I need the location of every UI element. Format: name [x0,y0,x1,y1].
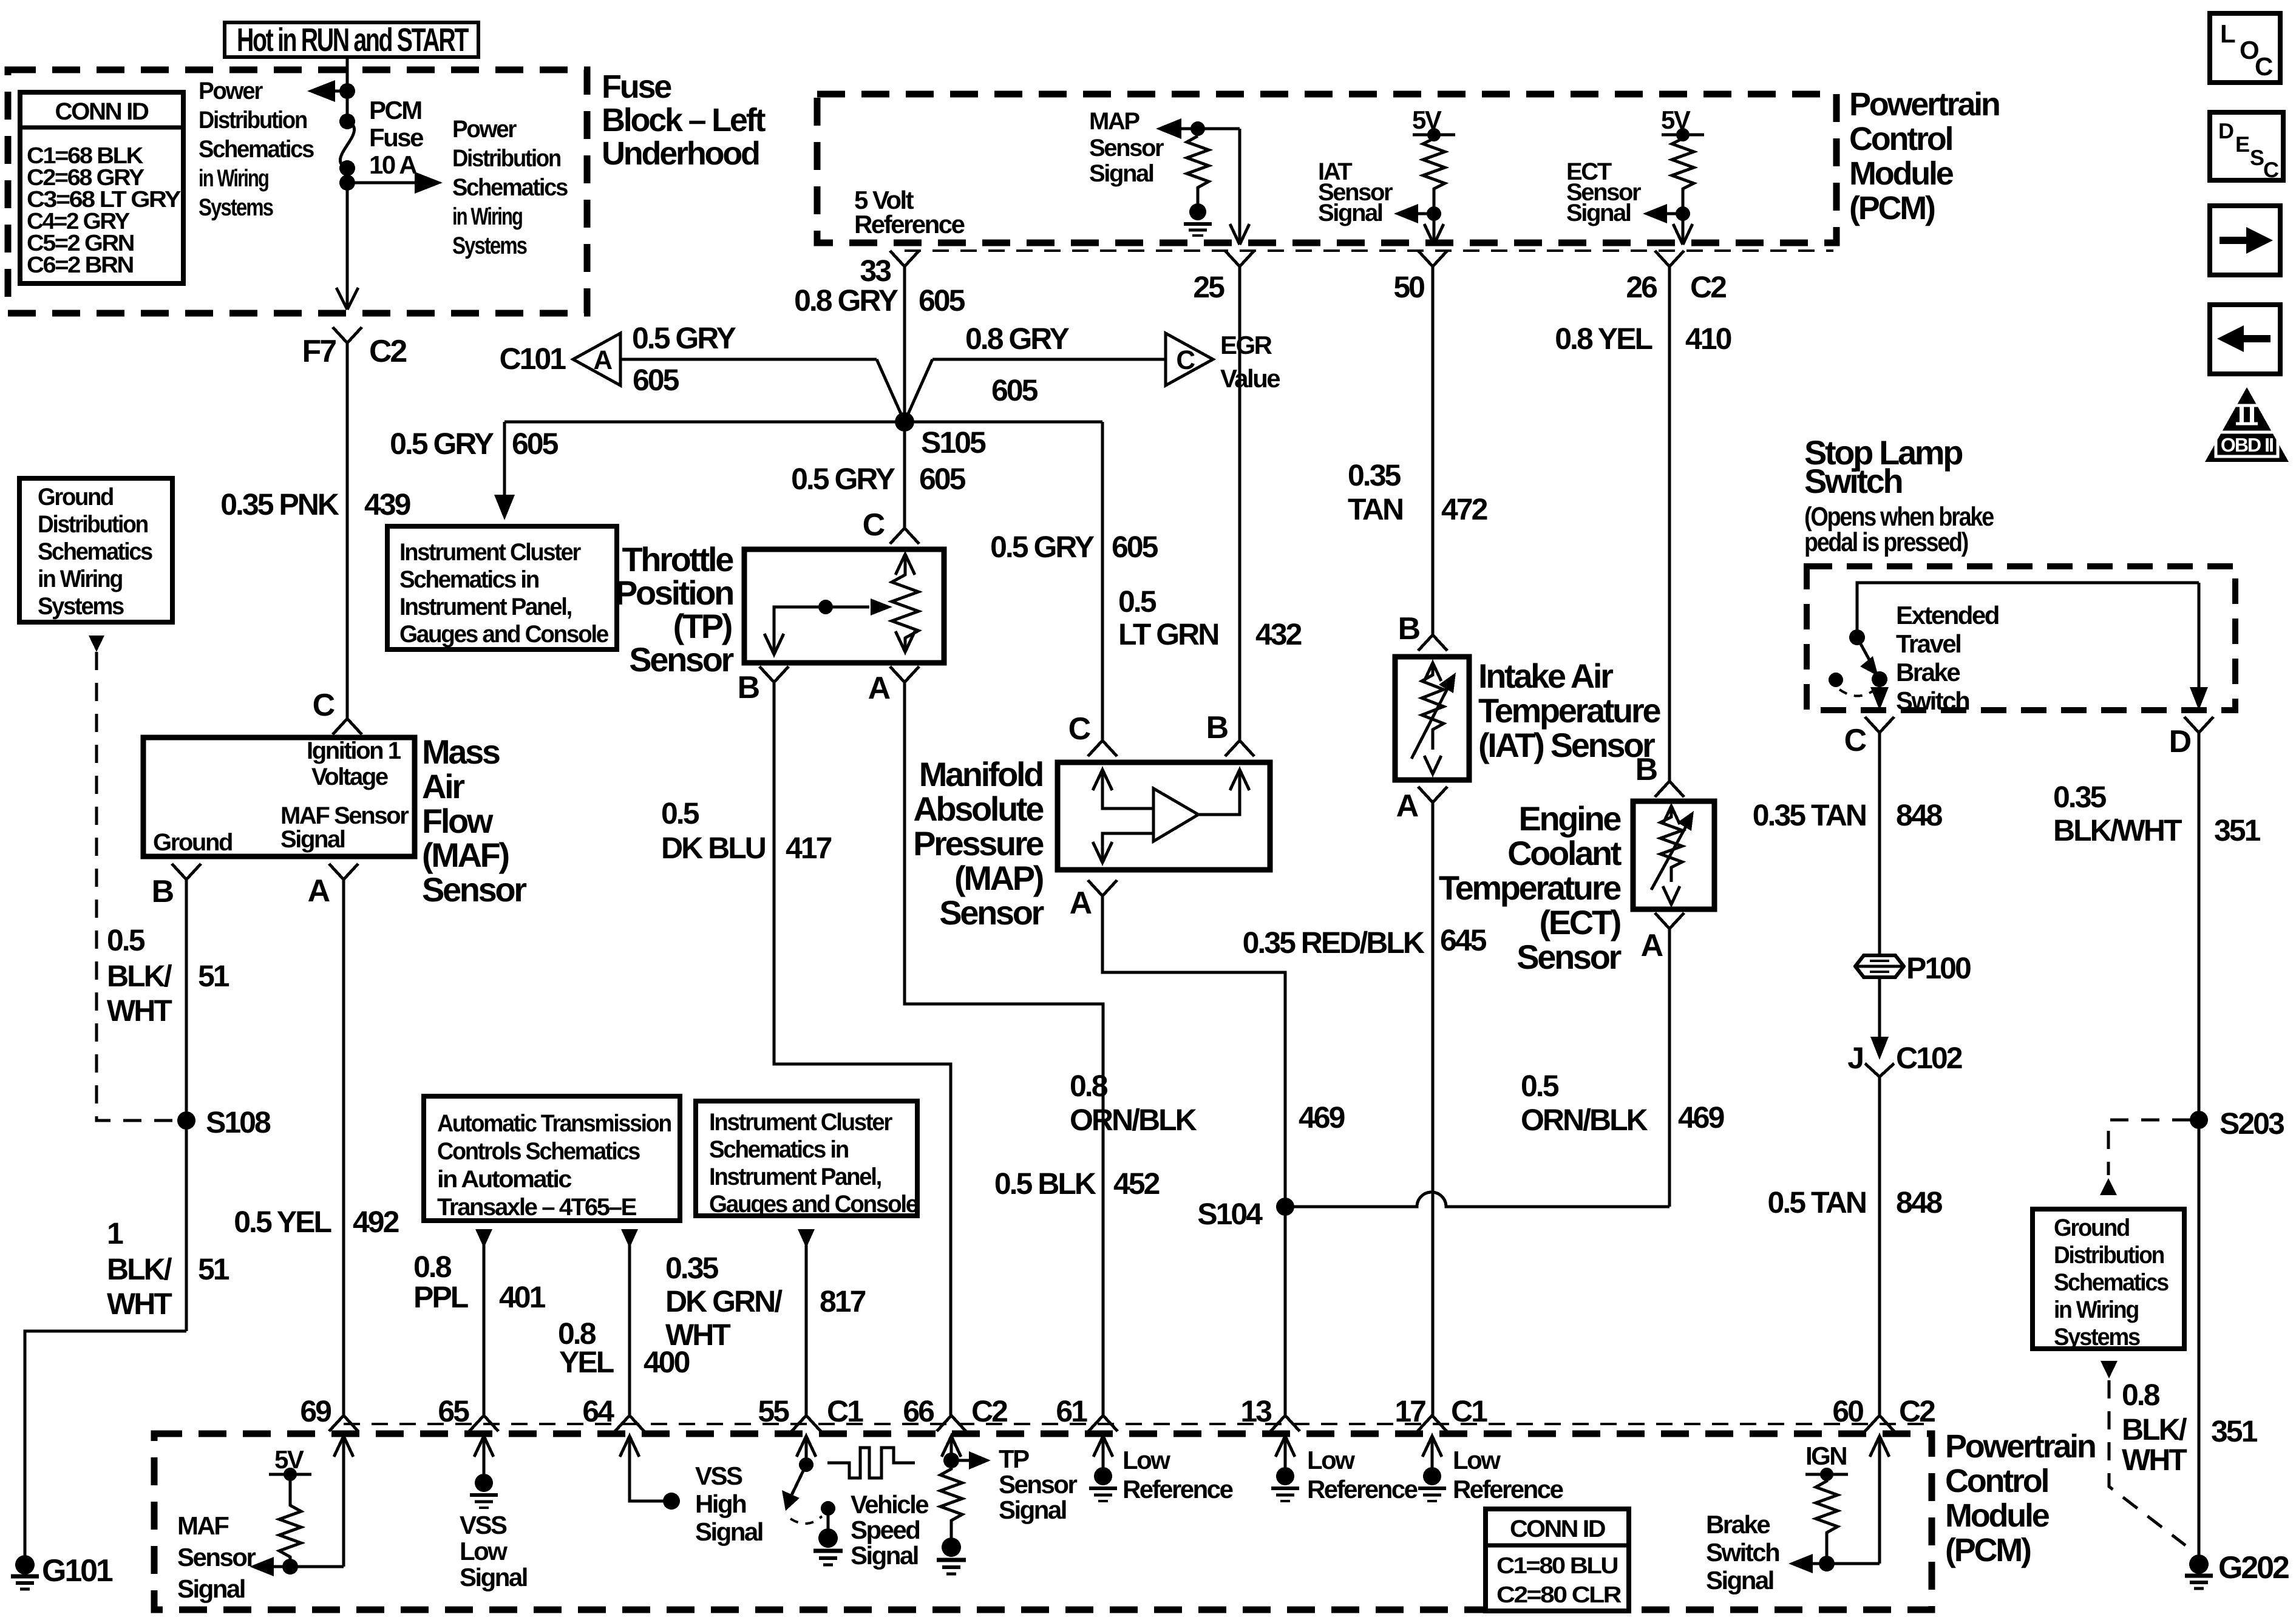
PCM title (bottom right) [1945,1428,2095,1568]
PCM pin 50 connector [1393,251,1447,304]
svg-text:51: 51 [198,959,229,993]
svg-text:Value: Value [1220,364,1280,393]
svg-text:(MAF): (MAF) [422,836,509,874]
svg-text:Control: Control [1849,121,1952,157]
MAF pin C connector [313,688,362,734]
MAP pin B connector [1206,710,1254,756]
svg-text:C1=80 BLU: C1=80 BLU [1496,1553,1618,1579]
svg-text:OBD II: OBD II [2221,434,2273,456]
PCM dashed box (bottom) [154,1434,1932,1610]
EGR Value C triangle connector [1166,331,1280,393]
square wave symbol [827,1448,915,1478]
wire 0.8 YEL 400 to pin 64 [558,1244,690,1415]
horizontal 5V reference bus [504,421,1102,424]
wire pin 26 to ECT pin B 0.8 YEL 410 [1555,266,1731,781]
ECT sensor name label [1439,799,1622,976]
svg-text:33: 33 [860,254,891,288]
svg-text:B: B [1206,710,1228,745]
MAF sensor name label [422,733,526,909]
svg-text:WHT: WHT [107,994,172,1028]
svg-text:5V: 5V [274,1445,304,1474]
reference arrow into pin 55 wire [798,1229,815,1248]
svg-text:WHT: WHT [107,1287,172,1321]
ground G101 [11,1553,113,1589]
IAT Sensor Signal circuit in PCM [1318,106,1455,245]
svg-text:410: 410 [1685,322,1731,356]
arrow to Power Distribution (left) [199,78,347,221]
switch pin C connector [1844,717,1894,758]
svg-text:0.35 PNK: 0.35 PNK [220,487,339,521]
dashed branch from S203 [2100,1120,2190,1195]
svg-text:BLK/: BLK/ [2122,1412,2187,1446]
pin 17 C1 connector [1394,1394,1487,1431]
svg-text:492: 492 [353,1205,399,1239]
svg-text:50: 50 [1393,270,1424,304]
svg-text:848: 848 [1896,1185,1943,1219]
svg-text:B: B [1398,611,1420,646]
pin 66 C2 connector [903,1394,1007,1431]
pin 60 C2 connector [1832,1394,1935,1431]
stop lamp switch title [1804,433,1994,557]
VSS High Signal circuit in bottom PCM [620,1436,763,1546]
svg-text:Distribution: Distribution [452,145,560,172]
svg-text:C: C [1176,345,1195,375]
MAP pin A connector [1070,880,1117,921]
svg-text:G101: G101 [42,1553,113,1588]
svg-text:pedal is pressed): pedal is pressed) [1804,527,1968,557]
svg-text:Powertrain: Powertrain [1849,86,1999,123]
wire 0.8 GRY 605 from pin 33 to S105 [794,266,965,422]
wire MAF A 0.5 YEL 492 down to pin 69 [234,880,398,1415]
Low Reference pin 17 [1418,1436,1563,1503]
wire F7 down to MAF pin C (0.35 PNK 439) [220,343,410,719]
Automatic Transmission reference box [424,1096,680,1221]
svg-text:Air: Air [422,767,464,805]
Brake Switch Signal circuit in bottom PCM [1706,1436,1889,1595]
svg-text:C: C [313,688,335,723]
PCM pin 26 connector [1626,251,1726,304]
MAF pin A connector [308,864,358,909]
svg-text:0.5 YEL: 0.5 YEL [234,1205,331,1239]
pin 65 connector [438,1394,498,1431]
svg-text:C1: C1 [827,1394,863,1428]
svg-text:Ground: Ground [153,829,232,856]
svg-text:0.35 TAN: 0.35 TAN [1753,798,1866,832]
LOC icon [2210,13,2280,83]
svg-text:13: 13 [1240,1394,1271,1428]
svg-text:60: 60 [1832,1394,1863,1428]
wire S105 branch down to MAP pin C [990,422,1158,741]
svg-text:605: 605 [919,283,965,317]
svg-text:D: D [2218,118,2233,143]
wire MAP A to S104 [1102,896,1285,1415]
svg-text:B: B [152,874,174,909]
ECT Sensor Signal circuit in PCM [1566,106,1704,245]
svg-text:Schematics in: Schematics in [399,566,538,593]
CONN ID table (fuse block) [20,92,183,283]
svg-text:C: C [2263,157,2279,182]
svg-text:(TP): (TP) [673,607,732,645]
svg-text:CONN ID: CONN ID [1510,1516,1606,1542]
Vehicle Speed Signal label [851,1490,928,1570]
svg-text:64: 64 [582,1394,614,1428]
svg-text:in Wiring: in Wiring [38,566,122,592]
svg-text:Position: Position [615,574,733,612]
svg-text:Signal: Signal [1566,200,1631,226]
svg-text:C1: C1 [1451,1394,1487,1428]
svg-text:Gauges and Console: Gauges and Console [399,621,608,648]
svg-text:Switch: Switch [1896,686,1969,715]
ground G202 [2185,1550,2289,1588]
svg-text:C2: C2 [971,1394,1007,1428]
Instrument Cluster reference box (lower) [696,1101,918,1218]
svg-text:in Wiring: in Wiring [452,203,522,230]
svg-text:Speed: Speed [851,1516,919,1544]
top thin connector dash line [905,249,1833,252]
ECT pin A connector [1641,913,1684,963]
svg-text:MAP: MAP [1089,108,1140,135]
left arrow icon [2210,305,2280,374]
svg-text:472: 472 [1441,492,1487,526]
svg-text:605: 605 [991,373,1038,407]
Low Reference pin 13 [1271,1436,1418,1503]
svg-text:EGR: EGR [1220,331,1272,359]
svg-text:401: 401 [499,1280,546,1314]
svg-text:(PCM): (PCM) [1945,1532,2031,1568]
svg-text:(ECT): (ECT) [1540,903,1620,941]
svg-text:Fuse: Fuse [369,123,423,152]
svg-text:469: 469 [1678,1100,1724,1134]
svg-text:848: 848 [1896,798,1943,832]
pin 64 connector [582,1394,644,1431]
svg-text:Instrument Cluster: Instrument Cluster [399,539,581,566]
wire 0.35 DK GRN/WHT 817 to pin 55 [665,1244,866,1415]
wire down to fuse block edge with arrow [336,183,358,310]
reference arrow into pin 65 wire [475,1229,492,1248]
svg-text:Ground: Ground [2054,1215,2129,1241]
wire pin 50 to IAT pin B 0.35 TAN 472 [1348,266,1487,635]
svg-text:BLK/: BLK/ [107,1252,172,1286]
svg-text:Reference: Reference [1453,1475,1563,1503]
wire 0.8 PPL 401 to pin 65 [413,1244,546,1415]
svg-text:351: 351 [2214,813,2261,847]
svg-text:10 A: 10 A [369,151,417,179]
svg-text:S: S [2250,145,2264,170]
svg-text:TAN: TAN [1348,492,1402,526]
svg-text:B: B [1635,752,1657,787]
svg-text:Distribution: Distribution [199,107,307,134]
svg-text:Automatic Transmission: Automatic Transmission [437,1110,671,1137]
svg-text:0.5 BLK: 0.5 BLK [994,1167,1096,1201]
svg-text:J: J [1847,1041,1863,1075]
svg-text:Sensor: Sensor [939,893,1044,932]
svg-text:A: A [308,873,330,909]
svg-text:F7: F7 [302,334,336,369]
svg-text:Fuse: Fuse [602,69,671,105]
svg-text:605: 605 [512,427,559,461]
left drop to instrument cluster with arrow [390,422,559,520]
svg-text:439: 439 [364,487,410,521]
svg-text:VSS: VSS [695,1462,742,1490]
svg-text:605: 605 [919,462,966,496]
svg-text:WHT: WHT [2122,1443,2187,1477]
splice S108 [177,1105,271,1139]
svg-text:A: A [1641,928,1663,963]
svg-text:PPL: PPL [413,1280,468,1314]
svg-text:Ignition 1: Ignition 1 [307,737,401,764]
svg-text:S203: S203 [2220,1107,2284,1141]
svg-text:A: A [868,671,891,706]
svg-text:Schematics: Schematics [199,136,314,163]
svg-text:0.8: 0.8 [2122,1378,2160,1412]
svg-text:Sensor: Sensor [999,1470,1077,1499]
svg-text:BLK/: BLK/ [107,959,172,993]
TP potentiometer [892,554,919,652]
left Ground Distribution reference box [19,478,172,622]
svg-text:645: 645 [1440,923,1487,957]
Fuse Block - Left Underhood dashed box [8,69,766,313]
svg-text:DK GRN/: DK GRN/ [665,1284,783,1318]
TP pin A connector [868,666,919,706]
svg-text:Ground: Ground [38,484,113,510]
svg-text:0.8 YEL: 0.8 YEL [1555,322,1652,356]
svg-text:Pressure: Pressure [913,824,1044,863]
reference arrow below right ground box [2101,1361,2118,1378]
PCM pin 25 connector [1193,251,1254,304]
svg-text:Schematics in: Schematics in [709,1136,848,1163]
svg-text:Distribution: Distribution [38,511,148,538]
right Ground Distribution reference box [2033,1209,2184,1351]
svg-text:Sensor: Sensor [1517,938,1621,976]
svg-text:Power: Power [199,78,263,104]
svg-text:469: 469 [1299,1100,1345,1134]
svg-text:Distribution: Distribution [2054,1242,2164,1269]
MAP Sensor Signal circuit in PCM [1089,108,1249,245]
svg-text:MAF Sensor: MAF Sensor [280,802,409,829]
svg-text:Flow: Flow [422,802,494,840]
svg-text:0.5 GRY: 0.5 GRY [390,427,494,461]
svg-text:A: A [1070,886,1092,921]
wire pin 25 to MAP pin B 0.5 LT GRN 432 [1118,266,1302,741]
wire IAT A 0.35 RED/BLK 645 to pin 17 [1243,802,1487,1415]
S104 horizontal with crossover hop [1285,1192,1669,1207]
svg-text:0.35: 0.35 [665,1251,719,1285]
svg-text:0.8 GRY: 0.8 GRY [794,283,898,317]
MAP sensor name label [913,755,1044,932]
svg-text:Sensor: Sensor [629,640,733,679]
pin 13 connector [1240,1394,1300,1431]
bottom thin connector dash line [344,1423,1931,1425]
svg-text:Mass: Mass [422,733,500,771]
wire 0.35 BLK/WHT 351 from pin D [2053,733,2261,1555]
svg-text:CONN ID: CONN ID [55,98,149,125]
svg-text:Switch: Switch [1804,462,1901,500]
svg-text:0.5: 0.5 [1118,585,1156,619]
svg-text:IGN: IGN [1805,1442,1846,1470]
MAP internal op-amp [1153,788,1198,841]
svg-text:C2: C2 [1690,270,1726,304]
svg-text:Low: Low [460,1537,508,1565]
PCM title (top right) [1849,86,1999,226]
svg-text:51: 51 [198,1252,229,1286]
VSS Low Signal circuit in bottom PCM [460,1436,527,1592]
svg-text:in Wiring: in Wiring [199,165,268,192]
MAP internal input C arrow [1093,770,1152,808]
dashed branch to S108 [97,652,176,1120]
svg-text:0.8 GRY: 0.8 GRY [965,322,1070,356]
IAT sensor box [1395,657,1469,780]
svg-text:Engine: Engine [1518,799,1621,838]
wire from Hot box into fuse block [346,57,349,121]
5 Volt Reference label [854,186,965,239]
svg-text:Systems: Systems [38,593,124,620]
TP pin B connector [738,666,789,705]
svg-text:Controls Schematics: Controls Schematics [437,1138,640,1165]
svg-text:65: 65 [438,1394,469,1428]
svg-text:Signal: Signal [999,1496,1066,1524]
svg-text:Signal: Signal [1089,160,1153,187]
svg-text:S108: S108 [206,1105,271,1139]
EGR branch left wire 0.5 GRY 605 [620,321,905,422]
C101 A triangle connector [499,333,620,385]
svg-text:Gauges and Console: Gauges and Console [709,1191,918,1218]
svg-text:ORN/BLK: ORN/BLK [1070,1103,1197,1137]
svg-text:Reference: Reference [854,210,965,239]
wire 0.5 TAN 848 to pin 60 [1768,1077,1943,1415]
svg-text:Voltage: Voltage [311,764,388,790]
dashed branch to G202 [2109,1380,2186,1545]
svg-text:Low: Low [1453,1446,1501,1474]
svg-text:0.5: 0.5 [1521,1069,1559,1103]
svg-text:G202: G202 [2218,1550,2289,1585]
label 0.8 BLK/WHT 351 [2122,1378,2258,1477]
svg-text:C: C [1068,711,1091,747]
svg-text:ORN/BLK: ORN/BLK [1521,1103,1648,1137]
fuse PCM Fuse 10 A [339,96,423,179]
svg-text:Signal: Signal [280,826,345,853]
svg-text:Coolant: Coolant [1507,834,1622,872]
svg-text:Module: Module [1849,155,1954,192]
reference arrow into pin 64 wire [621,1229,638,1248]
svg-text:DK BLU: DK BLU [661,831,766,865]
MAP sensor box [1058,762,1270,870]
svg-text:26: 26 [1626,270,1657,304]
svg-text:Schematics: Schematics [2054,1269,2169,1296]
svg-text:Brake: Brake [1896,658,1960,686]
svg-text:Systems: Systems [199,194,273,221]
junction below fuse [339,175,355,191]
svg-text:Underhood: Underhood [602,135,759,172]
IAT pin B connector [1398,611,1447,651]
wire TP B 0.5 DK BLU 417 to pin 66 [661,682,951,1415]
DESC icon [2210,112,2283,182]
svg-text:Instrument Panel,: Instrument Panel, [399,594,571,620]
ECT sensor box [1633,801,1714,909]
Vehicle Speed Signal switch in bottom PCM [782,1436,843,1565]
svg-text:C2: C2 [1899,1394,1935,1428]
svg-text:Low: Low [1123,1446,1170,1474]
svg-text:Reference: Reference [1123,1475,1233,1503]
svg-text:B: B [738,670,759,705]
TP Sensor Signal circuit in bottom PCM [937,1436,1077,1574]
svg-text:0.5 GRY: 0.5 GRY [990,530,1095,564]
svg-text:C101: C101 [499,342,566,376]
pin 61 connector [1056,1394,1118,1431]
svg-text:Control: Control [1945,1463,2048,1499]
svg-text:BLK/WHT: BLK/WHT [2053,813,2182,847]
svg-text:Signal: Signal [1318,200,1382,226]
svg-text:66: 66 [903,1394,934,1428]
svg-text:0.5 GRY: 0.5 GRY [791,462,895,496]
svg-text:0.5 TAN: 0.5 TAN [1768,1185,1866,1219]
OBD II icon [2205,387,2289,462]
svg-text:Absolute: Absolute [913,790,1044,828]
svg-text:Manifold: Manifold [919,755,1042,793]
svg-text:Sensor: Sensor [177,1543,256,1571]
IAT thermistor [1411,663,1456,774]
connector F7 / C2 [302,327,407,369]
svg-text:0.8: 0.8 [1070,1069,1108,1103]
svg-text:417: 417 [786,831,832,865]
MAP internal output to pin B [1198,770,1249,815]
svg-text:A: A [1396,788,1419,824]
svg-text:Low: Low [1307,1446,1355,1474]
svg-text:Switch: Switch [1706,1538,1779,1567]
svg-text:YEL: YEL [559,1345,614,1379]
svg-text:Extended: Extended [1896,601,1999,629]
svg-text:Signal: Signal [460,1563,527,1592]
svg-text:0.35: 0.35 [2053,780,2107,814]
svg-text:Power: Power [452,116,517,143]
svg-text:Sensor: Sensor [1089,135,1164,161]
svg-text:Signal: Signal [1706,1566,1773,1595]
svg-text:61: 61 [1056,1394,1087,1428]
MAF pin B connector [152,864,201,909]
PCM pin 33 connector [860,251,919,288]
reference arrow from ground box [89,636,104,652]
Hot in RUN and START box [225,22,478,58]
svg-text:C: C [863,507,885,543]
pin 55 C1 connector [758,1394,863,1431]
EGR branch right wire 0.8 GRY 605 [905,322,1166,422]
right arrow icon [2210,206,2280,275]
IAT pin A connector [1396,787,1447,824]
pin 69 connector [300,1394,358,1431]
stop lamp switch dashed box [1807,566,2235,710]
svg-text:Schematics: Schematics [452,174,568,201]
switch pin D connector [2169,717,2213,759]
splice S104 [1197,1197,1294,1231]
svg-text:1: 1 [107,1216,123,1250]
Instrument Cluster reference box (upper) [387,526,617,649]
svg-text:MAF: MAF [177,1511,229,1540]
svg-text:0.8: 0.8 [413,1250,452,1284]
svg-text:Vehicle: Vehicle [851,1490,928,1519]
ECT pin B connector [1635,752,1684,797]
wire S105 down to TP pin C 0.5 GRY 605 [791,422,966,528]
IAT sensor name label [1478,657,1660,764]
svg-text:Systems: Systems [452,232,527,259]
TP wiper arrow [764,598,892,654]
svg-text:Signal: Signal [695,1517,763,1546]
label 0.8 ORN/BLK 469 (pin 13 wire) [1070,1069,1345,1137]
svg-text:605: 605 [1112,530,1158,564]
svg-text:0.5: 0.5 [661,796,699,830]
svg-text:351: 351 [2211,1414,2258,1448]
svg-text:(IAT) Sensor: (IAT) Sensor [1478,726,1655,764]
svg-text:452: 452 [1113,1167,1160,1201]
svg-text:Block – Left: Block – Left [602,102,766,138]
